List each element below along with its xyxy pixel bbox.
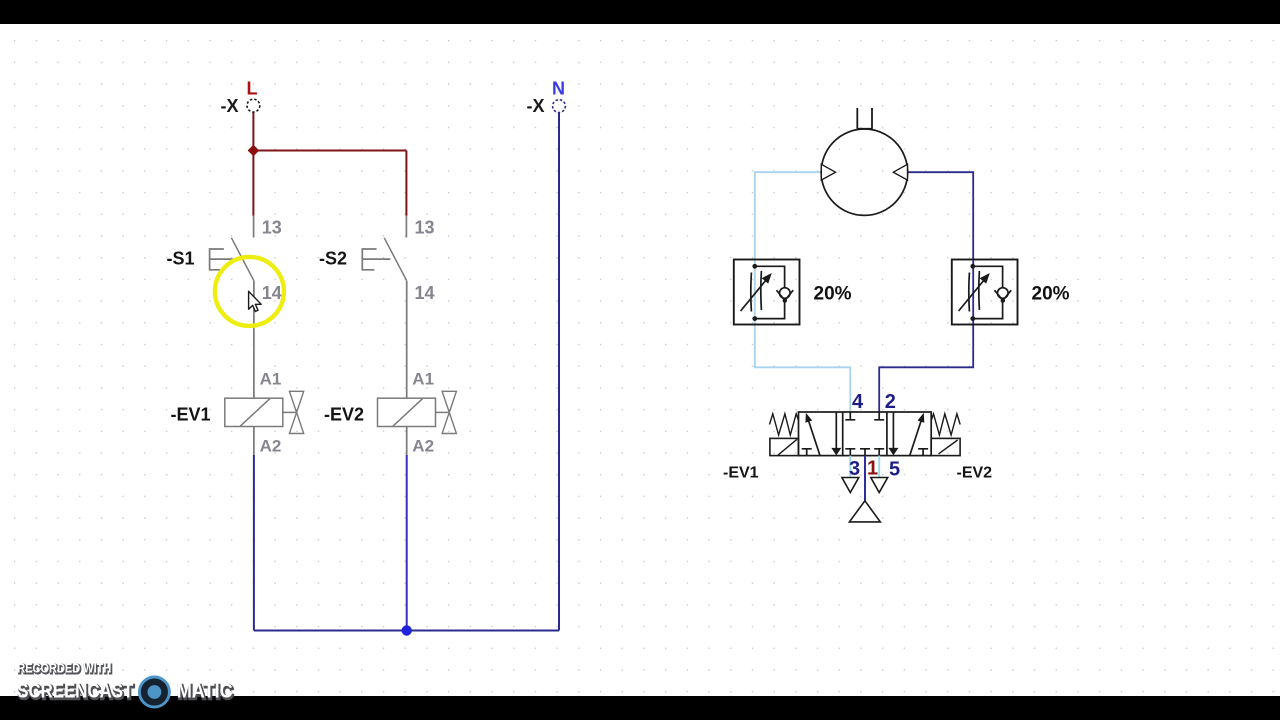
label N xyxy=(552,79,565,99)
valve left position flow 2 to 5 arrow xyxy=(831,412,841,455)
coil -EV1 valve indicator (hourglass) xyxy=(283,391,304,433)
valve right position flow 4 to 3 arrow xyxy=(888,412,898,455)
label 2 port xyxy=(885,391,896,413)
svg-text:-EV2: -EV2 xyxy=(957,465,993,482)
wire below -EV1 coil to bottom rail xyxy=(253,455,255,631)
coil -EV1 solenoid body xyxy=(225,398,283,427)
svg-text:-S2: -S2 xyxy=(319,248,347,268)
wire live vertical down to switch -S2 pin 13 xyxy=(405,151,407,216)
valve centre position blocked port 2 xyxy=(874,412,884,420)
label A2 of -EV1 xyxy=(260,437,282,456)
svg-text:14: 14 xyxy=(415,283,435,303)
coil -EV1 bottom stub A2 xyxy=(253,427,255,456)
svg-text:RECORDED WITH: RECORDED WITH xyxy=(17,661,111,676)
svg-text:20%: 20% xyxy=(814,284,852,305)
watermark SCREENCAST text xyxy=(17,680,134,704)
coil -EV2 valve indicator (hourglass) xyxy=(436,391,457,433)
valve left return spring xyxy=(770,414,799,435)
valve right pilot solenoid box xyxy=(931,438,960,455)
throttle check valve V1 body xyxy=(734,260,800,325)
switch -S2 top contact stub pin 13 xyxy=(405,216,407,238)
bottom letterbox bar xyxy=(0,696,1280,720)
valve left pilot solenoid box xyxy=(770,438,799,455)
valve centre position blocked port 5 xyxy=(874,449,884,456)
port 1 supply line navy xyxy=(864,456,866,501)
valve right position blocked port T xyxy=(918,449,928,456)
svg-text:13: 13 xyxy=(262,218,282,238)
label A1 of -EV1 xyxy=(260,370,282,389)
label 14 of -S1 xyxy=(262,283,282,303)
top letterbox bar xyxy=(0,0,1280,24)
label -S2 xyxy=(319,248,347,268)
exhaust triangle port 5 xyxy=(871,478,888,493)
switch -S2 blade (normally open) xyxy=(384,238,407,281)
watermark MATIC text xyxy=(177,680,234,704)
svg-text:5: 5 xyxy=(889,459,900,481)
svg-text:2: 2 xyxy=(885,391,896,413)
throttle check valve V2 body xyxy=(952,260,1018,325)
label 5 port xyxy=(889,459,900,481)
V2 check valve ball xyxy=(998,288,1009,299)
port 3 exhaust stub (cyan) xyxy=(849,456,851,477)
svg-text:SCREENCAST: SCREENCAST xyxy=(17,680,133,703)
svg-text:A2: A2 xyxy=(260,437,282,456)
label A1 of -EV2 xyxy=(412,370,434,389)
V2 node bottom xyxy=(970,316,975,321)
valve centre position blocked port 4 xyxy=(845,412,855,420)
label 13 of -S1 xyxy=(262,218,282,238)
V1 check valve seat xyxy=(777,290,794,303)
switch -S2 pushbutton actuator xyxy=(362,249,390,270)
junction dot on bottom rail xyxy=(402,625,412,635)
label -X (right terminal) xyxy=(527,96,545,116)
valve centre position blocked port 1 xyxy=(860,449,870,456)
label 20% right xyxy=(1032,284,1070,305)
svg-text:14: 14 xyxy=(262,283,282,303)
valve right position flow 1 to 2 arrow xyxy=(910,413,925,456)
5/3-way valve body xyxy=(799,412,932,456)
port 5 exhaust stub (cyan) xyxy=(878,456,880,477)
V1 node bottom xyxy=(752,316,757,321)
svg-text:-S1: -S1 xyxy=(167,248,195,268)
V1 check valve ball xyxy=(780,288,791,299)
V1 bypass line with check valve xyxy=(755,266,785,318)
wire below -EV2 coil to bottom rail (bright blue) xyxy=(406,455,408,631)
svg-text:MATIC: MATIC xyxy=(177,680,233,703)
svg-text:A1: A1 xyxy=(412,370,434,389)
coil -EV2 bottom stub A2 xyxy=(406,427,408,456)
svg-text:-EV1: -EV1 xyxy=(171,405,211,425)
label 20% left xyxy=(814,284,852,305)
pipe navy: motor right port to right throttle and valve port 2 xyxy=(879,172,973,412)
svg-text:-EV2: -EV2 xyxy=(324,405,364,425)
wire bottom rail navy xyxy=(254,630,559,632)
svg-text:-X: -X xyxy=(221,96,239,116)
watermark recorded-with text xyxy=(17,661,112,677)
pipe light blue: motor left port to left throttle and valve port 4 xyxy=(755,172,851,412)
label -X (left terminal) xyxy=(221,96,239,116)
terminal -X phase L xyxy=(247,99,260,112)
label -S1 xyxy=(167,248,195,268)
compressed air supply triangle port 1 xyxy=(849,501,880,522)
junction dot on live wire xyxy=(248,145,260,157)
wire from -S1 pin 14 down to coil -EV1 xyxy=(253,281,255,399)
svg-text:20%: 20% xyxy=(1032,284,1070,305)
label -EV2 coil xyxy=(324,405,364,425)
svg-text:4: 4 xyxy=(852,391,864,413)
wire N neutral (navy) xyxy=(558,113,560,631)
valve centre position blocked port 3 xyxy=(845,449,855,456)
valve left position flow 1 to 4 arrow xyxy=(805,413,820,456)
label A2 of -EV2 xyxy=(412,437,434,456)
mouse cursor xyxy=(249,291,262,311)
V2 bypass line with check valve xyxy=(973,266,1003,318)
V2 throttle arcs xyxy=(969,271,980,312)
svg-text:13: 13 xyxy=(415,218,435,238)
terminal -X neutral N xyxy=(553,100,566,113)
label 13 of -S2 xyxy=(415,218,435,238)
yellow highlight circle xyxy=(215,257,284,326)
label 4 port xyxy=(852,391,864,413)
label 1 port xyxy=(867,458,878,480)
svg-text:-X: -X xyxy=(527,96,545,116)
label -EV1 valve solenoid xyxy=(723,465,759,482)
svg-text:N: N xyxy=(552,79,565,99)
svg-text:A1: A1 xyxy=(260,370,282,389)
label -EV2 valve solenoid xyxy=(957,465,993,482)
switch -S1 top contact stub pin 13 xyxy=(253,216,255,238)
svg-text:1: 1 xyxy=(867,458,878,480)
air motor shaft xyxy=(857,108,872,129)
V2 node top xyxy=(970,264,975,269)
V2 check valve seat xyxy=(995,290,1012,303)
V1 adjustment arrow xyxy=(741,273,772,311)
svg-text:A2: A2 xyxy=(412,437,434,456)
V1 throttle arcs xyxy=(751,271,762,312)
watermark logo circle xyxy=(139,677,169,707)
air motor right flow triangle xyxy=(893,164,907,180)
wire L live (dark red) from terminal -X:L down through junction to switch -S1 pin 13 xyxy=(252,112,254,216)
valve left position blocked port T xyxy=(802,449,812,456)
V1 node top xyxy=(752,264,757,269)
svg-text:-EV1: -EV1 xyxy=(723,465,759,482)
svg-text:L: L xyxy=(247,79,258,99)
coil -EV2 solenoid body xyxy=(378,398,436,427)
valve right return spring xyxy=(931,414,960,435)
label L xyxy=(247,79,258,99)
air motor left flow triangle xyxy=(821,164,835,180)
exhaust triangle port 3 xyxy=(842,478,859,493)
switch -S1 blade (normally open) xyxy=(231,238,254,281)
V2 adjustment arrow xyxy=(959,273,990,311)
label 3 port xyxy=(849,458,860,480)
label -EV1 coil xyxy=(171,405,211,425)
label 14 of -S2 xyxy=(415,283,435,303)
wire from -S2 pin 14 down to coil -EV2 xyxy=(406,281,408,399)
air motor U1 circle xyxy=(821,129,907,215)
switch -S1 pushbutton actuator xyxy=(210,249,238,270)
wire live horizontal branch to -S2 xyxy=(253,150,406,152)
